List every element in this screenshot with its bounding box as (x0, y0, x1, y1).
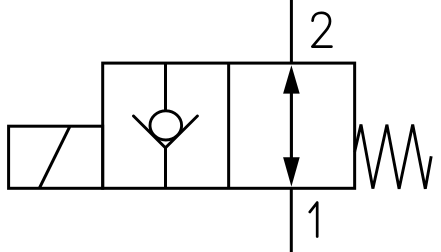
solenoid box (9, 126, 103, 188)
wire port 2 (top pilot line) (290, 0, 293, 63)
label port 1 (310, 203, 317, 237)
wire port 1 (bottom line) (290, 188, 293, 252)
check valve poppet circle (150, 111, 182, 140)
check valve upper stem (164, 63, 167, 112)
flow path arrow shaft (290, 92, 293, 158)
return spring (355, 125, 432, 189)
valve body (two-position envelope) (103, 63, 355, 188)
flow path arrowhead top (283, 65, 300, 93)
solenoid diagonal stroke (39, 126, 70, 188)
position divider line (227, 63, 230, 188)
label port 2 (312, 13, 331, 47)
check valve seat V (134, 116, 198, 148)
check valve lower stem (164, 147, 167, 189)
flow path arrowhead bottom (283, 157, 300, 186)
